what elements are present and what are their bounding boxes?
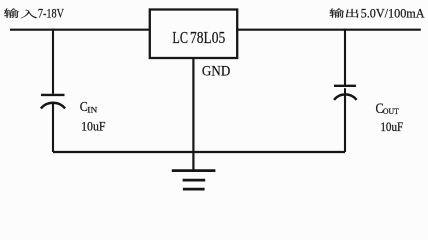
svg-text:LC: LC xyxy=(172,28,188,47)
svg-text:OUT: OUT xyxy=(383,106,400,116)
wire output rail xyxy=(236,29,421,31)
svg-text:78L05: 78L05 xyxy=(190,28,225,47)
label output (shu) xyxy=(329,8,344,17)
svg-text:7-18V: 7-18V xyxy=(38,5,65,20)
wire GND drop xyxy=(192,58,194,170)
wire Cout branch lower xyxy=(344,95,346,152)
wire Cin branch lower xyxy=(52,104,54,152)
svg-text:10uF: 10uF xyxy=(81,119,105,134)
capacitor C_OUT lead tick xyxy=(344,88,346,94)
wire bottom rail xyxy=(53,151,345,153)
label input (shu) xyxy=(4,8,19,18)
ground symbol xyxy=(172,169,216,172)
capacitor C_OUT top plate xyxy=(334,85,356,87)
svg-text:GND: GND xyxy=(202,64,231,80)
svg-text:IN: IN xyxy=(87,104,97,114)
label output (chu) xyxy=(346,9,359,18)
wire Cout branch upper xyxy=(344,29,346,87)
capacitor C_IN top plate xyxy=(41,94,65,96)
regulator U1 box xyxy=(150,10,237,59)
wire input rail xyxy=(10,29,150,31)
capacitor C_OUT curved plate xyxy=(334,94,357,100)
label input (ru) xyxy=(21,10,38,19)
capacitor C_IN curved plate xyxy=(41,103,65,109)
wire Cin branch upper xyxy=(52,29,54,94)
svg-text:5.0V/100mA: 5.0V/100mA xyxy=(361,5,426,20)
svg-text:10uF: 10uF xyxy=(380,119,403,134)
